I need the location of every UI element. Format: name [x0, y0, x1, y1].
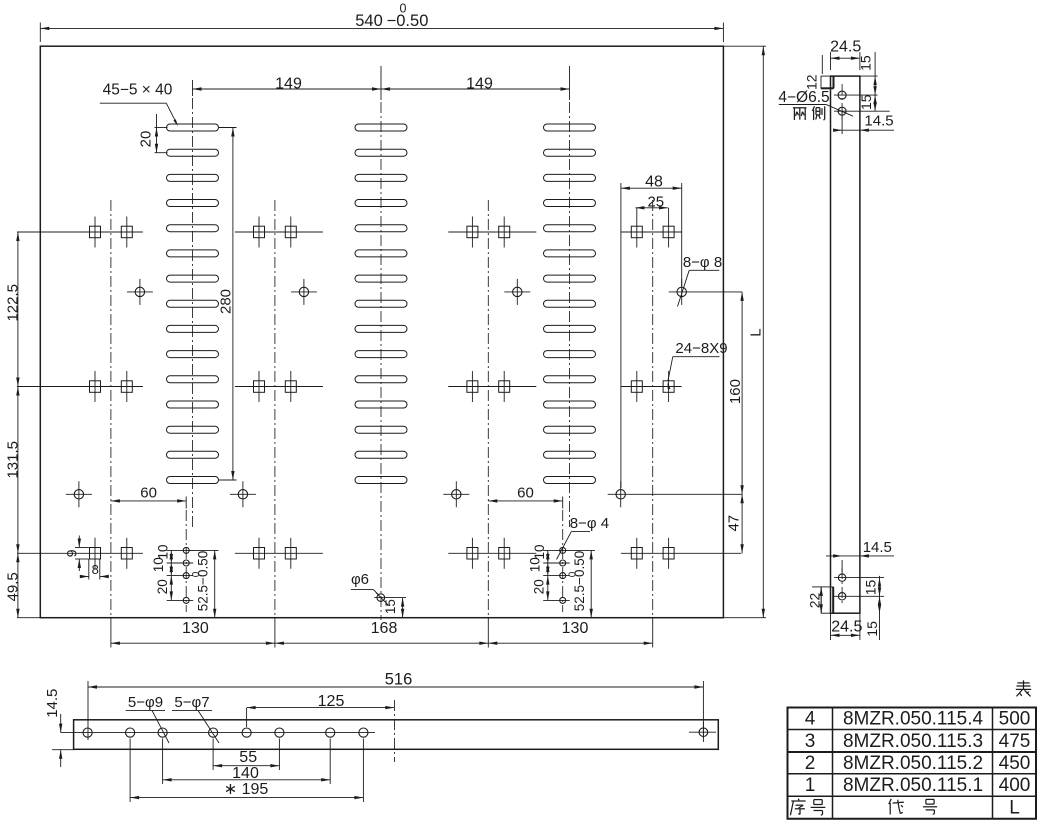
- svg-text:8: 8: [92, 562, 99, 577]
- svg-text:15: 15: [863, 580, 879, 596]
- svg-text:8MZR.050.115.1: 8MZR.050.115.1: [843, 775, 983, 796]
- svg-text:1: 1: [805, 775, 816, 796]
- svg-text:400: 400: [999, 775, 1031, 796]
- svg-text:0: 0: [191, 571, 202, 577]
- svg-text:24.5: 24.5: [831, 618, 862, 635]
- svg-text:122.5: 122.5: [4, 284, 21, 322]
- svg-text:14.5: 14.5: [44, 689, 61, 718]
- svg-text:5−φ7: 5−φ7: [174, 694, 209, 711]
- svg-text:52.5−0.50: 52.5−0.50: [572, 551, 587, 611]
- svg-text:15: 15: [858, 94, 874, 110]
- svg-text:131.5: 131.5: [4, 441, 21, 479]
- svg-text:24−8X9: 24−8X9: [675, 340, 727, 357]
- svg-text:15: 15: [857, 55, 873, 71]
- svg-text:149: 149: [275, 76, 302, 93]
- svg-text:φ6: φ6: [351, 571, 369, 588]
- svg-text:8MZR.050.115.2: 8MZR.050.115.2: [843, 753, 983, 774]
- svg-text:3: 3: [805, 731, 816, 752]
- svg-text:500: 500: [999, 709, 1031, 730]
- svg-text:L: L: [1009, 798, 1020, 819]
- svg-text:125: 125: [318, 693, 345, 710]
- svg-text:20: 20: [137, 131, 154, 148]
- svg-text:5−φ9: 5−φ9: [128, 694, 163, 711]
- svg-text:9: 9: [64, 549, 80, 557]
- svg-text:0: 0: [568, 571, 579, 577]
- svg-text:∗ 195: ∗ 195: [224, 781, 269, 798]
- svg-text:8−φ 4: 8−φ 4: [570, 515, 609, 532]
- svg-text:15: 15: [383, 599, 398, 614]
- svg-text:280: 280: [217, 289, 234, 314]
- svg-text:52.5−0.50: 52.5−0.50: [196, 551, 211, 611]
- svg-text:48: 48: [645, 174, 663, 191]
- svg-text:L: L: [747, 328, 764, 336]
- svg-text:540: 540: [355, 12, 383, 30]
- svg-text:149: 149: [466, 76, 493, 93]
- svg-text:8−φ 8: 8−φ 8: [683, 254, 722, 271]
- svg-text:516: 516: [385, 671, 413, 689]
- svg-text:130: 130: [562, 620, 589, 637]
- svg-text:12: 12: [804, 74, 820, 90]
- svg-text:20: 20: [155, 579, 170, 594]
- svg-text:22: 22: [807, 593, 823, 609]
- svg-text:140: 140: [232, 765, 259, 782]
- svg-text:15: 15: [864, 621, 880, 637]
- svg-text:24.5: 24.5: [830, 38, 861, 55]
- svg-text:49.5: 49.5: [4, 572, 21, 601]
- svg-text:2: 2: [805, 753, 816, 774]
- svg-text:4−Ø6.5: 4−Ø6.5: [778, 89, 829, 106]
- svg-text:60: 60: [140, 484, 157, 501]
- svg-text:−0.50: −0.50: [387, 12, 429, 30]
- svg-text:475: 475: [999, 731, 1031, 752]
- svg-text:160: 160: [727, 379, 744, 404]
- svg-text:130: 130: [182, 620, 209, 637]
- svg-text:8MZR.050.115.3: 8MZR.050.115.3: [843, 731, 983, 752]
- svg-text:10: 10: [151, 557, 166, 572]
- svg-text:14.5: 14.5: [863, 539, 892, 556]
- svg-text:4: 4: [805, 709, 816, 730]
- svg-text:10: 10: [527, 557, 542, 572]
- svg-text:55: 55: [239, 749, 257, 766]
- svg-text:20: 20: [531, 579, 546, 594]
- svg-text:25: 25: [647, 194, 664, 211]
- svg-text:14.5: 14.5: [864, 112, 893, 129]
- svg-text:47: 47: [726, 515, 743, 532]
- svg-text:0: 0: [400, 1, 407, 15]
- svg-text:60: 60: [517, 484, 534, 501]
- svg-text:8MZR.050.115.4: 8MZR.050.115.4: [843, 709, 984, 730]
- svg-text:168: 168: [371, 620, 398, 637]
- svg-text:450: 450: [999, 753, 1031, 774]
- svg-text:45−5 × 40: 45−5 × 40: [103, 82, 173, 99]
